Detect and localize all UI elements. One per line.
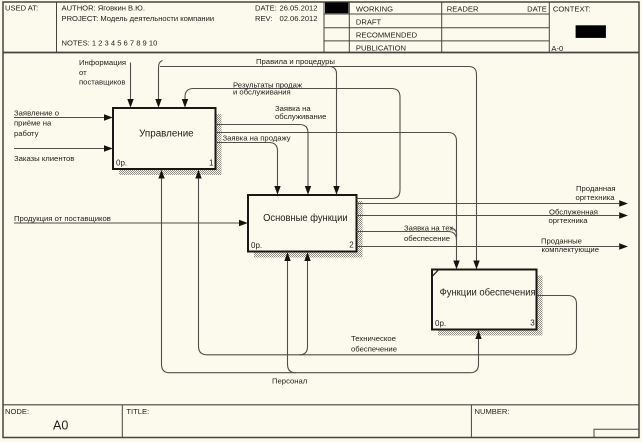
svg-text:Заявление о: Заявление о [14, 108, 59, 117]
svg-text:PUBLICATION: PUBLICATION [356, 43, 406, 52]
wire Правила и процедуры branch to box 2 [331, 67, 337, 188]
svg-text:Правила и процедуры: Правила и процедуры [256, 57, 335, 66]
box 2 Основные функции [248, 195, 357, 252]
arrowhead Проданная [619, 200, 628, 206]
svg-text:REV:: REV: [255, 14, 272, 23]
label Информация от поставщиков [79, 58, 126, 86]
arrowhead Заказы [104, 145, 113, 151]
wire Техническое обеспечение branch to box 2 [300, 261, 308, 355]
wire Проданная оргтехника [357, 203, 620, 205]
wire Заявка на продажу [216, 143, 278, 188]
arrowhead Персонал into box1 bottom [158, 170, 164, 179]
svg-text:DATE:: DATE: [255, 3, 277, 12]
svg-text:Функции обеспечения: Функции обеспечения [440, 287, 536, 299]
svg-text:0р.: 0р. [435, 319, 446, 328]
arrowhead Заявка на обслуживание into box2 [305, 186, 311, 195]
label tick Заявка на тех [451, 228, 457, 237]
svg-text:приёме на: приёме на [14, 119, 52, 128]
arrowhead Правила into box1 [155, 99, 161, 108]
header grid horizontals [324, 14, 549, 41]
svg-text:AUTHOR: Яговкин В.Ю.: AUTHOR: Яговкин В.Ю. [62, 3, 145, 12]
arrowhead Техническое into box2 bottom [304, 252, 310, 261]
wire Результаты продаж и обслуживания feedback [185, 89, 400, 199]
svg-text:обеспесение: обеспесение [404, 234, 450, 243]
wire Заказы клиентов [14, 148, 104, 150]
arrowhead Техническое into box1 bottom [195, 170, 201, 179]
svg-text:02.06.2012: 02.06.2012 [279, 14, 317, 23]
svg-text:Персонал: Персонал [272, 377, 307, 386]
label Заявка на тех обеспесение [404, 224, 455, 243]
svg-text:1: 1 [209, 158, 214, 167]
svg-text:0р.: 0р. [251, 241, 262, 250]
svg-text:USED AT:: USED AT: [5, 3, 38, 12]
svg-text:и обслуживания: и обслуживания [233, 88, 291, 97]
svg-text:DRAFT: DRAFT [356, 17, 382, 26]
box 2 shadow [254, 201, 363, 258]
svg-text:обеспечение: обеспечение [351, 344, 397, 353]
arrowhead Правила into box2 [333, 186, 339, 195]
svg-text:0р.: 0р. [116, 159, 127, 168]
wire Правила и процедуры main [159, 61, 163, 100]
wire Техническое обеспечение [199, 178, 577, 355]
wire Персонал [162, 178, 170, 373]
svg-text:CONTEXT:: CONTEXT: [553, 4, 591, 13]
svg-text:Техническое: Техническое [351, 334, 396, 343]
svg-text:26.05.2012: 26.05.2012 [279, 3, 317, 12]
number cell corner box [594, 429, 639, 437]
arrowhead Проданные [619, 243, 628, 249]
label Результаты продаж и обслуживания [233, 80, 303, 96]
svg-text:от: от [79, 68, 87, 77]
svg-text:оргтехника: оргтехника [549, 216, 589, 225]
arrowhead Правила into box3 [473, 261, 479, 270]
arrowhead Результаты into box1 [182, 99, 188, 108]
svg-text:NODE:: NODE: [5, 407, 29, 416]
wire Продукция от поставщиков [14, 222, 239, 224]
svg-text:Заявка на тех.: Заявка на тех. [404, 224, 455, 233]
svg-text:Управление: Управление [139, 129, 194, 140]
svg-text:NOTES: 1 2 3 4 5 6 7 8: NOTES: 1 2 3 4 5 6 7 8 9 10 [62, 38, 158, 47]
svg-text:DATE: DATE [527, 4, 547, 13]
svg-text:Информация: Информация [79, 58, 126, 67]
wire to Функции обеспечения vertical [216, 133, 457, 262]
arrowhead merged into box3 [453, 261, 459, 270]
svg-text:3: 3 [530, 319, 535, 328]
wire Заявление о приёме на работу [14, 117, 104, 119]
arrowhead Продукция [239, 220, 248, 226]
context black box [576, 25, 606, 38]
arrowhead Персонал into box2 bottom [284, 252, 290, 261]
svg-text:Проданная: Проданная [576, 184, 616, 193]
svg-text:READER: READER [447, 4, 479, 13]
svg-text:WORKING: WORKING [356, 4, 393, 13]
svg-text:работу: работу [14, 129, 39, 138]
wire Персонал branch to box 2 [288, 261, 297, 373]
label Заявка на обслуживание [275, 104, 326, 121]
label Проданная оргтехника [576, 184, 616, 202]
header grid verticals [57, 2, 550, 53]
wire Заявка на тех обеспесение [357, 232, 457, 241]
arrowhead Заявление [104, 114, 113, 120]
wire Информация от поставщиков [130, 63, 132, 100]
svg-text:A-0: A-0 [551, 44, 563, 53]
wire Проданные комплектующие [357, 246, 620, 248]
arrowhead Персонал into box3 bottom [475, 330, 481, 339]
header working mark black box [325, 3, 349, 14]
box 1 Управление [113, 108, 216, 169]
svg-text:поставщиков: поставщиков [79, 77, 126, 86]
svg-text:Продукция от поставщиков: Продукция от поставщиков [14, 214, 111, 223]
svg-text:комплектующие: комплектующие [542, 245, 600, 254]
svg-text:Заказы клиентов: Заказы клиентов [14, 154, 74, 163]
wire Обслуженная оргтехника [357, 215, 620, 217]
svg-text:Заявка на продажу: Заявка на продажу [223, 134, 291, 143]
header bottom line [3, 52, 639, 54]
svg-text:2: 2 [349, 241, 354, 250]
footer grid verticals [122, 405, 471, 438]
label Заявление о приёме на работу [14, 108, 59, 138]
svg-text:обслуживание: обслуживание [275, 112, 326, 121]
svg-text:NUMBER:: NUMBER: [475, 407, 510, 416]
wire Заявка на обслуживание [216, 125, 309, 188]
label Техническое обеспечение [351, 334, 397, 354]
box 3 Функции обеспечения [432, 270, 537, 330]
box 1 shadow [119, 114, 222, 175]
svg-text:оргтехника: оргтехника [576, 193, 616, 202]
svg-text:A0: A0 [53, 418, 68, 432]
footer top line [3, 404, 639, 406]
svg-text:PROJECT: Модель деятельности: PROJECT: Модель деятельности компании [62, 14, 215, 23]
svg-text:RECOMMENDED: RECOMMENDED [356, 30, 418, 39]
arrowhead Информация [127, 99, 133, 108]
box 3 shadow [438, 276, 543, 336]
label Проданные комплектующие [541, 237, 599, 254]
box 3 corner notch [432, 269, 439, 277]
label Обслуженная оргтехника [549, 207, 598, 225]
arrowhead Заявка на продажу into box2 [274, 186, 280, 195]
arrowhead Обслуженная [619, 212, 628, 218]
svg-text:TITLE:: TITLE: [126, 407, 149, 416]
svg-text:Основные функции: Основные функции [263, 212, 348, 224]
